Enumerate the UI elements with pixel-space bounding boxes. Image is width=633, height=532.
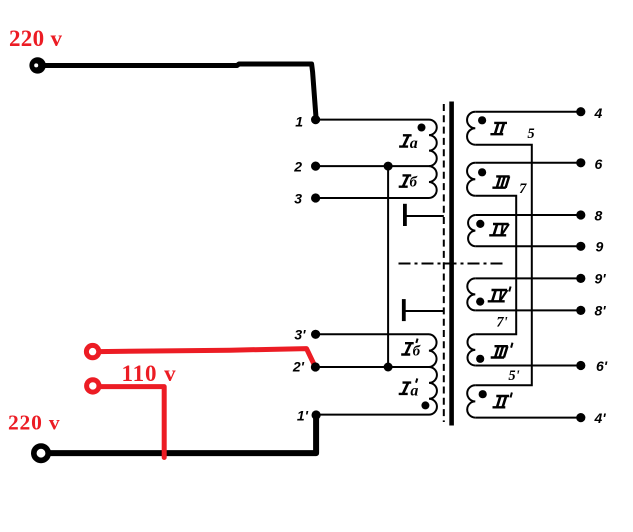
terminal dot 8' [576,306,585,315]
label Ia' [399,378,418,394]
tap lower bar [402,299,406,321]
terminal dot 2' [311,362,320,371]
svg-text:a: a [410,135,418,152]
svg-text:2': 2' [292,358,305,374]
svg-text:б: б [413,344,421,360]
terminal dot 6' [576,361,585,370]
winding Ib' [429,334,437,367]
wire terminal2' to coil [316,366,429,368]
wire terminal1' to coil [316,414,429,416]
polarity dot II [478,116,486,124]
svg-text:8': 8' [595,303,607,319]
core [449,102,454,426]
tap lower lead [404,310,444,312]
terminal dot 1' [312,410,321,419]
wire terminal1 to coil [316,119,429,121]
wire link 5 [475,145,532,386]
label Ia [399,135,412,146]
terminal dot 1 [311,115,320,124]
svg-text:1': 1' [297,407,309,423]
winding IV' [467,278,475,310]
wire junction 2 to 2' [387,166,389,367]
terminal dot 3 [311,193,320,202]
svg-text:3: 3 [294,190,302,206]
svg-text:110 v: 110 v [122,361,177,386]
wire terminal4' [475,417,581,419]
terminal dot 3' [311,330,320,339]
svg-text:4': 4' [594,410,607,426]
svg-text:a: a [410,382,418,399]
label II [490,123,507,134]
wire terminal8' [475,309,581,311]
svg-text:5': 5' [508,368,519,384]
wire terminal4 [475,111,581,113]
label IV' [488,287,511,302]
polarity dot Ia' [421,401,429,409]
label III' [491,343,513,358]
wire terminal9' [475,277,581,279]
svg-text:6: 6 [595,156,603,172]
svg-text:6': 6' [596,358,608,374]
junction node 2' [384,363,393,372]
svg-text:3': 3' [294,326,306,342]
svg-text:1: 1 [295,114,303,130]
svg-text:9': 9' [595,271,607,287]
wire link 7 [475,196,516,334]
label Ib [399,175,412,186]
winding III' [467,334,475,365]
svg-text:9: 9 [596,239,604,255]
wire terminal8 [475,214,581,216]
winding II [467,112,475,145]
terminal dot 2 [311,162,320,171]
label Ib' [401,339,417,355]
terminal input top-left [29,57,45,73]
winding II' [467,385,475,417]
svg-text:5: 5 [527,126,534,142]
polarity dot IV [476,220,484,228]
wire 220v top run [44,64,316,118]
terminal dot 9' [576,274,585,283]
polarity dot IV' [476,298,484,306]
polarity dot Ia [418,124,426,132]
terminal 110v upper [86,345,98,357]
wire terminal6' [475,365,581,367]
junction node 2 [384,162,393,171]
polarity dot III [478,168,486,176]
terminal dot 4 [576,107,585,116]
terminal 110v lower [87,380,99,392]
wire terminal9 [475,245,581,247]
svg-text:2: 2 [293,159,302,175]
terminal dot 6 [576,158,585,167]
wire 110v to terminal 2' [98,349,315,367]
tap upper lead [405,215,444,217]
terminal dot 8 [576,210,585,219]
centerline dash-dot [399,263,506,265]
label II' [493,393,512,408]
terminal input bottom-left [34,446,48,460]
terminal dot 9 [576,242,585,251]
svg-text:7: 7 [519,181,527,197]
wire terminal3' to coil [316,333,429,335]
label IV [489,224,509,235]
svg-text:220 v: 220 v [8,411,60,435]
winding Ib [429,166,437,198]
svg-text:8: 8 [595,208,603,224]
winding IV [468,215,475,246]
winding Ia' [429,367,437,415]
tap upper bar [403,204,407,226]
svg-text:4: 4 [594,105,603,121]
label III [492,176,509,187]
svg-text:7': 7' [496,315,507,331]
wire 220v bottom run [50,415,316,453]
winding Ia [429,120,437,167]
polarity dot III' [476,355,484,363]
svg-text:б: б [410,175,418,191]
polarity dot II' [479,390,487,398]
wire terminal3 to coil [316,197,429,199]
winding III [467,163,475,196]
svg-text:220 v: 220 v [9,26,62,51]
wire terminal6 [475,162,581,164]
wire terminal2 to coil [316,165,429,167]
core dashed flux line [443,104,445,422]
terminal dot 4' [576,413,585,422]
wire 110v lower stub [98,387,164,458]
